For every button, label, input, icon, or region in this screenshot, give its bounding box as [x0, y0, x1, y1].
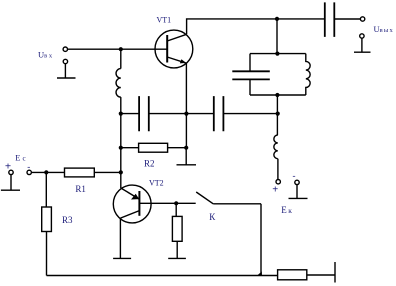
wire VT2 collector down [119, 218, 121, 258]
terminal Uvx top circle [63, 47, 67, 51]
wire tank rail upper [276, 19, 278, 54]
wire VT2 base to junction [139, 202, 195, 204]
wire VT1 collector to top rail [187, 19, 277, 34]
terminal Uvx bottom circle [63, 59, 67, 63]
node emitter rail / C row junction [184, 112, 188, 116]
terminal Ek plus circle [276, 180, 280, 184]
svg-text:Uвх: Uвх [38, 50, 53, 60]
resistor R2 [121, 143, 186, 152]
ground (under VT2 collector) [113, 257, 131, 259]
inductor L3 (choke to Ek) [274, 135, 278, 159]
terminal Es minus circle [27, 170, 31, 174]
svg-text:К: К [209, 212, 216, 222]
node bottom corner [257, 272, 262, 277]
node base rail / R1 junction [119, 170, 123, 174]
wire base rail to middle row [120, 97, 122, 148]
wire tank top side [250, 53, 306, 55]
node input/base-rail junction [119, 47, 123, 51]
wire tank left lower lead [249, 80, 251, 95]
wire C3 to output terminal [334, 18, 360, 20]
node emitter rail / R2 junction [184, 146, 188, 150]
node tank rail / C2 row junction [276, 112, 280, 116]
capacitor C4 (tank, horizontal plates) [232, 71, 269, 79]
transistor VT2 [113, 185, 151, 223]
node base rail / R2 junction [119, 146, 123, 150]
wire base rail to VT2 emitter [120, 148, 122, 188]
terminal Uvyx bottom circle [360, 34, 364, 38]
svg-text:Ек: Ек [281, 205, 292, 215]
wire right rail down [260, 204, 262, 276]
terminal Uvyx top circle [360, 17, 364, 21]
ground (under base resistor) [168, 257, 186, 259]
wire Es to R1 junction [31, 171, 64, 173]
wire choke to Ek terminal [277, 159, 279, 180]
resistor R3 [42, 172, 52, 275]
ground (under Uvx terminal) [57, 64, 76, 78]
wire bottom rail [47, 275, 278, 277]
resistor (base resistor, vertical) [172, 203, 182, 258]
inductor L2 (tank coil, bulge right) [306, 54, 310, 95]
terminal Es plus circle [9, 170, 13, 174]
svg-text:R2: R2 [144, 158, 155, 168]
wire switch to right rail [213, 203, 261, 205]
wire tank rail middle [276, 95, 278, 135]
node base rail / C1 row junction [119, 112, 123, 116]
svg-text:+: + [272, 185, 278, 196]
node tank top junction [275, 52, 279, 56]
node Es / R3 junction [44, 170, 48, 174]
inductor L1 (base rail coil) [116, 69, 121, 98]
capacitor C1 [139, 96, 149, 131]
wire base rail upper [120, 49, 122, 68]
ground (under Uvyx terminal) [354, 38, 371, 52]
ground (under Es plus) [1, 175, 20, 191]
transistor VT1 [155, 30, 193, 68]
wire C2 to tank rail [223, 113, 277, 115]
capacitor C2 [214, 96, 224, 131]
wire bottom resistor to terminator [307, 274, 335, 276]
wire tank bottom side [250, 94, 306, 96]
wire top rail to C3 [277, 18, 325, 20]
node top rail / tank junction [275, 17, 279, 21]
svg-text:-: - [293, 171, 296, 181]
node tank bottom junction [275, 93, 279, 97]
resistor (bottom, unlabeled) [278, 270, 307, 280]
svg-text:VT2: VT2 [149, 179, 164, 188]
wire C1 left lead [121, 113, 139, 115]
terminal Ek minus circle [295, 180, 299, 184]
wire VT1 emitter rail [185, 63, 187, 148]
node base/R/K junction [174, 201, 178, 205]
svg-text:R3: R3 [62, 215, 73, 225]
svg-text:Ес: Ес [15, 153, 25, 163]
ground (under VT1 emitter rail) [177, 148, 197, 165]
ground (under Ek minus) [289, 185, 308, 199]
resistor R1 [65, 168, 121, 177]
ground bar (bottom right terminator) [334, 262, 336, 283]
switch K blade [196, 192, 213, 204]
capacitor C3 (output coupling) [325, 2, 335, 37]
svg-text:VT1: VT1 [157, 16, 172, 25]
svg-text:Uвых: Uвых [374, 24, 394, 34]
wire tank left upper lead [249, 54, 251, 71]
wire C1 to emitter rail [149, 113, 214, 115]
svg-text:R1: R1 [75, 184, 86, 194]
wire input (Uvx to VT1 base) [67, 48, 167, 50]
